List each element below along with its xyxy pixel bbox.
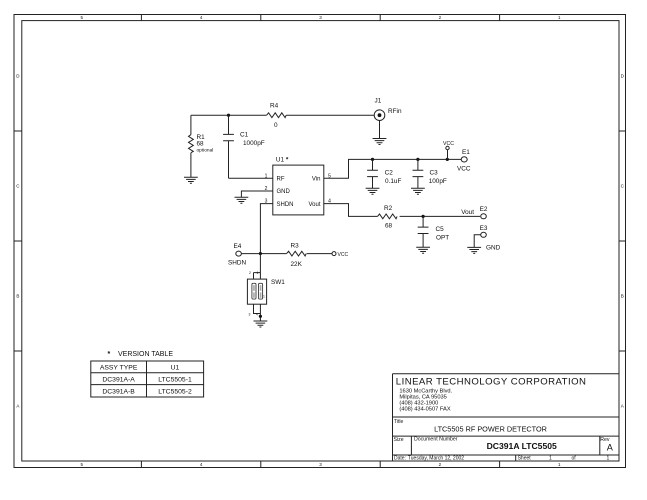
- svg-text:RF: RF: [277, 177, 285, 183]
- version table: [91, 351, 204, 397]
- svg-text:68: 68: [385, 223, 393, 230]
- power VCC symbol at R3: [332, 252, 348, 258]
- svg-text:SHDN: SHDN: [228, 260, 246, 267]
- svg-text:ASSY TYPE: ASSY TYPE: [100, 365, 138, 372]
- ground at C5: [416, 247, 430, 253]
- svg-text:E4: E4: [234, 243, 242, 250]
- svg-text:1: 1: [549, 455, 552, 461]
- svg-text:22K: 22K: [291, 261, 303, 268]
- svg-text:2: 2: [249, 271, 251, 275]
- svg-text:E1: E1: [462, 149, 470, 156]
- svg-text:R4: R4: [270, 103, 279, 110]
- power VCC symbol above rail: [443, 141, 454, 150]
- svg-text:Size: Size: [394, 437, 404, 443]
- svg-text:1000pF: 1000pF: [243, 140, 265, 147]
- svg-text:DC391A LTC5505: DC391A LTC5505: [487, 441, 557, 451]
- svg-text:E2: E2: [480, 206, 488, 213]
- wire: RF input net top: [191, 114, 374, 116]
- svg-text:LTC5505-1: LTC5505-1: [158, 376, 192, 383]
- node junction C5: [422, 215, 425, 218]
- svg-text:3: 3: [249, 313, 251, 317]
- resistor R2: [378, 205, 398, 230]
- pad E4 SHDN: [228, 243, 246, 267]
- svg-text:Document Number: Document Number: [414, 437, 458, 443]
- svg-text:VCC: VCC: [443, 141, 454, 147]
- svg-text:SHDN: SHDN: [277, 202, 294, 208]
- svg-text:R3: R3: [291, 243, 300, 250]
- svg-text:*VERSION TABLE: *VERSION TABLE: [108, 351, 174, 358]
- svg-text:RFin: RFin: [388, 108, 402, 115]
- svg-text:U1: U1: [171, 365, 180, 372]
- wire: U1 pin2 to ground: [241, 191, 272, 197]
- switch SW1: [247, 254, 285, 321]
- svg-text:Vout: Vout: [461, 209, 474, 216]
- wire: U1 pin3 SHDN vertical: [260, 204, 272, 254]
- op-amp U1 (LTC5505 detector IC): [265, 157, 332, 215]
- svg-text:1: 1: [257, 271, 259, 275]
- svg-text:A: A: [607, 443, 614, 453]
- svg-text:A: A: [621, 404, 624, 409]
- title block: [393, 374, 620, 462]
- svg-text:LTC5505-2: LTC5505-2: [158, 388, 192, 395]
- node junction C2: [371, 158, 374, 161]
- connector J1 RFin: [374, 98, 402, 121]
- wire: SHDN net row: [242, 253, 332, 255]
- node junction C3: [416, 158, 419, 161]
- wire: R1 branch: [190, 115, 192, 177]
- wire: J1 ground stem: [379, 121, 381, 139]
- svg-text:(408) 434-0507 FAX: (408) 434-0507 FAX: [399, 407, 450, 413]
- capacitor C1: [223, 132, 265, 148]
- wire: Vout net from pin4: [324, 204, 480, 217]
- svg-text:VCC: VCC: [457, 166, 471, 173]
- ground at E3: [467, 247, 481, 253]
- svg-text:U1 *: U1 *: [276, 157, 289, 164]
- svg-text:C5: C5: [436, 226, 445, 233]
- capacitor C2: [367, 159, 401, 188]
- node junction VCC stub: [446, 158, 449, 161]
- svg-text:DC391A-B: DC391A-B: [102, 388, 135, 395]
- ground at SW1: [254, 321, 268, 327]
- node junction RF/C1: [227, 114, 230, 117]
- ground at C3: [411, 188, 425, 194]
- svg-text:0: 0: [274, 122, 278, 129]
- capacitor C3: [413, 159, 447, 188]
- svg-text:1: 1: [265, 173, 268, 179]
- svg-text:E3: E3: [480, 225, 488, 232]
- svg-text:B: B: [621, 294, 624, 299]
- ground at C2: [366, 188, 380, 194]
- svg-text:Tuesday, March 12, 2002: Tuesday, March 12, 2002: [408, 455, 464, 461]
- svg-text:of: of: [572, 456, 577, 462]
- node junction SHDN/SW1: [259, 252, 262, 255]
- svg-text:LINEAR TECHNOLOGY CORPORATION: LINEAR TECHNOLOGY CORPORATION: [396, 377, 587, 388]
- svg-text:1630 McCarthy Blvd.: 1630 McCarthy Blvd.: [399, 388, 452, 394]
- svg-text:B: B: [16, 294, 19, 299]
- svg-text:OPT: OPT: [436, 235, 449, 242]
- svg-text:SW1: SW1: [271, 279, 285, 286]
- capacitor C5: [418, 216, 450, 247]
- ground at U1 pin 2: [235, 197, 249, 203]
- svg-text:GND: GND: [277, 189, 291, 195]
- svg-text:1: 1: [263, 295, 265, 299]
- wire: E3 to ground: [474, 235, 481, 247]
- svg-text:C2: C2: [385, 170, 394, 177]
- wire: Vin net to VCC rail: [324, 159, 461, 178]
- svg-text:J1: J1: [375, 98, 382, 105]
- svg-text:0.1uF: 0.1uF: [385, 178, 401, 185]
- svg-text:optional: optional: [197, 147, 214, 153]
- ground at J1: [373, 139, 387, 145]
- svg-text:100pF: 100pF: [429, 178, 447, 185]
- svg-text:VCC: VCC: [338, 252, 349, 258]
- wire: C1 branch to RF pin: [229, 115, 273, 178]
- svg-text:Title: Title: [394, 419, 403, 425]
- svg-text:Sheet: Sheet: [518, 455, 532, 461]
- svg-text:C3: C3: [430, 170, 439, 177]
- svg-text:68: 68: [197, 140, 205, 147]
- resistor R4: [267, 103, 287, 130]
- pad E2: [480, 206, 488, 219]
- resistor R1: [189, 134, 214, 153]
- svg-text:(408) 432-1900: (408) 432-1900: [399, 401, 438, 407]
- svg-text:R2: R2: [384, 205, 393, 212]
- svg-text:C1: C1: [240, 132, 249, 139]
- pad E1: [457, 149, 471, 173]
- svg-text:Vin: Vin: [312, 177, 321, 183]
- wire: VCC stub: [447, 150, 449, 160]
- svg-text:1: 1: [607, 456, 610, 462]
- svg-text:A: A: [16, 404, 19, 409]
- svg-text:DC391A-A: DC391A-A: [102, 376, 135, 383]
- svg-text:Milpitas, CA 95035: Milpitas, CA 95035: [399, 394, 446, 400]
- ground at R1: [184, 177, 198, 183]
- resistor R3: [287, 243, 307, 269]
- pad E3: [480, 225, 488, 237]
- svg-text:GND: GND: [486, 245, 501, 252]
- svg-text:LTC5505 RF POWER DETECTOR: LTC5505 RF POWER DETECTOR: [434, 425, 547, 434]
- svg-text:Date:: Date:: [394, 455, 406, 461]
- svg-text:Vout: Vout: [308, 202, 320, 208]
